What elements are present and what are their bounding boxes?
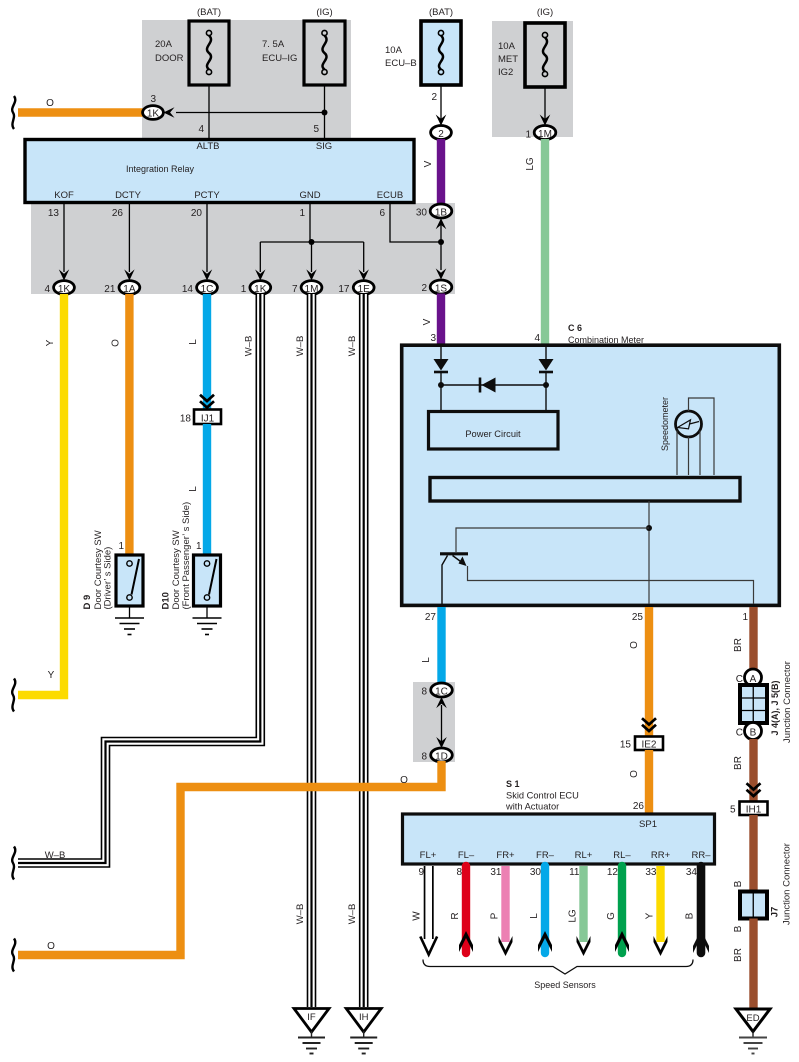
svg-text:Junction Connector: Junction Connector bbox=[782, 843, 793, 925]
transistor Q1 bbox=[440, 554, 468, 604]
gray panel top (fuse block) bbox=[142, 20, 351, 138]
fuse F2 7.5A ECU-IG bbox=[304, 21, 345, 85]
connector 1M ellipse bbox=[534, 126, 556, 140]
diode D2 (LG input) bbox=[539, 347, 554, 385]
svg-text:12: 12 bbox=[607, 867, 619, 878]
wire LG RL+ bbox=[577, 866, 591, 956]
svg-text:7. 5A: 7. 5A bbox=[262, 39, 285, 50]
wire orange left with break squiggle bbox=[18, 108, 143, 116]
skid control ECU S1 box bbox=[403, 814, 715, 864]
svg-text:BR: BR bbox=[733, 638, 744, 652]
svg-text:Combination Meter: Combination Meter bbox=[568, 335, 644, 345]
double arrow into IH1 bbox=[747, 783, 761, 789]
svg-text:18: 18 bbox=[180, 414, 192, 425]
svg-text:W–B: W–B bbox=[295, 904, 306, 925]
junction connector J4/J5 bbox=[740, 685, 767, 723]
wire F4 to connector 1M bbox=[544, 87, 546, 122]
svg-text:IH: IH bbox=[359, 1012, 369, 1023]
svg-text:Speedometer: Speedometer bbox=[660, 397, 670, 451]
arrow into 1M bbox=[306, 269, 316, 280]
svg-text:ECU–IG: ECU–IG bbox=[262, 53, 297, 64]
svg-text:26: 26 bbox=[112, 208, 124, 219]
svg-text:8: 8 bbox=[421, 687, 427, 698]
svg-text:(Front Passenger’ s Side): (Front Passenger’ s Side) bbox=[181, 502, 192, 610]
svg-text:3: 3 bbox=[150, 94, 156, 105]
internal wire 1B to 1S bbox=[440, 222, 442, 270]
svg-text:1A: 1A bbox=[123, 284, 136, 295]
junction IJ1 box bbox=[194, 410, 221, 425]
wire LG from 1M to meter pin 4 bbox=[541, 139, 549, 346]
svg-text:1S: 1S bbox=[435, 284, 448, 295]
svg-text:Y: Y bbox=[645, 912, 656, 919]
svg-text:W–B: W–B bbox=[244, 336, 255, 357]
connector 1 1K bbox=[250, 281, 271, 295]
svg-text:30: 30 bbox=[416, 208, 428, 219]
svg-text:RR+: RR+ bbox=[651, 850, 671, 861]
wire R FL- bbox=[459, 866, 473, 953]
svg-text:1: 1 bbox=[196, 541, 202, 552]
svg-text:L: L bbox=[188, 486, 199, 492]
junction dot left of D3 bbox=[438, 382, 444, 388]
svg-text:Power Circuit: Power Circuit bbox=[465, 429, 521, 439]
svg-text:1M: 1M bbox=[538, 129, 552, 140]
junction dot right of D3 bbox=[543, 382, 549, 388]
svg-text:13: 13 bbox=[48, 208, 60, 219]
svg-text:Speed Sensors: Speed Sensors bbox=[534, 980, 596, 990]
connector 4 1K bbox=[54, 281, 75, 295]
wire brown J7 to ED bbox=[749, 919, 757, 1009]
svg-text:LG: LG bbox=[525, 157, 536, 171]
svg-text:C 6: C 6 bbox=[568, 323, 582, 333]
wire W-B from 1M to ground IF bbox=[307, 294, 317, 1007]
connector 17 1E bbox=[353, 281, 374, 295]
svg-text:Junction Connector: Junction Connector bbox=[782, 661, 793, 743]
svg-text:B: B bbox=[750, 728, 757, 739]
svg-text:1K: 1K bbox=[254, 284, 267, 295]
svg-text:O: O bbox=[46, 98, 54, 109]
speed sensors bracket bbox=[423, 960, 693, 975]
internal wire 1C to 1D bbox=[441, 705, 443, 742]
pin 6 wire ECUB bbox=[390, 201, 441, 242]
gray panel below relay bbox=[31, 203, 455, 294]
svg-text:ALTB: ALTB bbox=[196, 141, 219, 152]
svg-text:R: R bbox=[450, 912, 461, 919]
door courtesy switch D10 bbox=[194, 555, 221, 606]
pin 1 wire GND with branch bbox=[309, 201, 311, 242]
svg-text:P: P bbox=[490, 912, 501, 919]
double arrow into IE2 bbox=[642, 718, 656, 724]
svg-text:Y: Y bbox=[48, 670, 55, 681]
connector 7 1M bbox=[301, 281, 322, 295]
junction IE2 box bbox=[635, 737, 663, 751]
wire F1 to relay ALTB pin 4 bbox=[208, 85, 210, 138]
svg-text:1B: 1B bbox=[435, 208, 448, 219]
svg-text:J 4(A), J 5(B): J 4(A), J 5(B) bbox=[770, 680, 780, 735]
svg-text:FL+: FL+ bbox=[420, 850, 437, 861]
power circuit box bbox=[429, 412, 559, 450]
connector 1K top ellipse bbox=[143, 106, 164, 120]
speedometer wiring bbox=[677, 398, 714, 475]
svg-text:3: 3 bbox=[430, 333, 436, 344]
wire branch to transistor base bbox=[456, 528, 649, 552]
arrow up into 1B bbox=[436, 218, 447, 229]
wire orange 1D to left edge bbox=[18, 761, 442, 955]
svg-text:1: 1 bbox=[525, 130, 531, 141]
svg-text:D 9: D 9 bbox=[82, 595, 93, 610]
svg-text:IE2: IE2 bbox=[641, 740, 656, 751]
svg-text:1: 1 bbox=[241, 284, 247, 295]
svg-text:9: 9 bbox=[418, 867, 424, 878]
svg-text:FL–: FL– bbox=[458, 850, 475, 861]
connector 8 1D bbox=[431, 748, 453, 762]
svg-text:6: 6 bbox=[379, 208, 385, 219]
fuse F1 20A DOOR bbox=[189, 21, 229, 85]
junction dot SIG bbox=[322, 110, 328, 116]
svg-text:B: B bbox=[685, 912, 696, 919]
wire G RL- bbox=[615, 866, 629, 953]
wire P FR+ bbox=[499, 866, 513, 956]
connector circle A bbox=[745, 669, 762, 686]
svg-text:V: V bbox=[422, 318, 433, 325]
wire L FR- bbox=[538, 866, 552, 953]
GND drop to 1K bbox=[259, 242, 261, 272]
junction IH1 box bbox=[740, 802, 768, 816]
ground IH triangle bbox=[346, 1009, 381, 1054]
wire SIG to 1K with left arrow bbox=[176, 112, 325, 114]
svg-text:L: L bbox=[188, 339, 199, 345]
svg-text:IJ1: IJ1 bbox=[201, 413, 215, 424]
wire blue L pin27 to 1C bbox=[437, 607, 445, 684]
wire F3 to connector 2 bbox=[440, 85, 442, 122]
svg-text:O: O bbox=[110, 339, 121, 347]
svg-text:10A: 10A bbox=[498, 41, 516, 52]
svg-text:15: 15 bbox=[620, 740, 632, 751]
arrow up into 1C bbox=[436, 697, 447, 708]
svg-text:GND: GND bbox=[299, 190, 320, 201]
gray panel MET IG2 bbox=[492, 21, 573, 137]
gray panel 1C/1D strip bbox=[413, 682, 455, 762]
wire orange IE2 to SP1 bbox=[645, 750, 653, 814]
arrow into 1K lower bbox=[255, 269, 265, 280]
arrow into 1C bbox=[202, 269, 212, 280]
svg-text:14: 14 bbox=[182, 284, 194, 295]
ground ED triangle bbox=[736, 1009, 770, 1054]
arrow into 1K row bbox=[59, 269, 69, 280]
svg-text:17: 17 bbox=[338, 284, 350, 295]
connector 14 1C bbox=[197, 281, 218, 295]
svg-text:B: B bbox=[733, 925, 744, 932]
speedometer gauge bbox=[676, 411, 702, 437]
svg-text:W–B: W–B bbox=[295, 336, 306, 357]
wire brown BR pin1 to junction A bbox=[749, 607, 757, 670]
svg-text:26: 26 bbox=[633, 801, 645, 812]
svg-text:BR: BR bbox=[733, 756, 744, 770]
svg-text:D10: D10 bbox=[161, 592, 172, 609]
arrow down into 1D bbox=[436, 737, 447, 748]
wire brown B to IH1 bbox=[749, 739, 757, 801]
svg-text:SP1: SP1 bbox=[639, 819, 657, 830]
svg-text:J7: J7 bbox=[770, 907, 781, 918]
svg-text:W–B: W–B bbox=[45, 850, 66, 861]
junction dot pin25 branch bbox=[646, 525, 652, 531]
pin 13 wire KOF bbox=[63, 201, 65, 272]
wire F2 to relay SIG pin 5 bbox=[324, 85, 326, 138]
svg-text:L: L bbox=[529, 913, 540, 919]
svg-text:BR: BR bbox=[733, 948, 744, 962]
svg-text:20: 20 bbox=[191, 208, 203, 219]
svg-text:1K: 1K bbox=[58, 284, 71, 295]
svg-text:8: 8 bbox=[456, 867, 462, 878]
svg-text:4: 4 bbox=[534, 333, 540, 344]
svg-text:W–B: W–B bbox=[347, 904, 358, 925]
svg-text:5: 5 bbox=[730, 805, 736, 816]
svg-text:Skid Control ECU: Skid Control ECU bbox=[506, 791, 579, 801]
svg-text:1: 1 bbox=[118, 541, 124, 552]
svg-text:1: 1 bbox=[742, 612, 748, 623]
wire W-B from 1E to ground IH bbox=[359, 294, 369, 1007]
ground under D9 bbox=[115, 606, 144, 635]
svg-text:O: O bbox=[47, 941, 55, 952]
svg-text:with Actuator: with Actuator bbox=[505, 802, 559, 812]
arrow down into 1S bbox=[436, 268, 447, 279]
fuse F3 10A ECU-B bbox=[421, 21, 461, 85]
svg-text:4: 4 bbox=[198, 124, 204, 135]
wire purple V from 1S to meter pin 3 bbox=[437, 294, 445, 347]
wire orange pin25 to IE2 bbox=[645, 607, 653, 736]
svg-text:IH1: IH1 bbox=[746, 805, 762, 816]
connector 21 1A bbox=[119, 281, 140, 295]
svg-text:(IG): (IG) bbox=[537, 7, 553, 18]
wire emitter to pin 1 bbox=[468, 566, 754, 604]
double arrow into IJ1 bbox=[200, 395, 214, 401]
junction connector J7 bbox=[740, 892, 767, 919]
svg-text:1K: 1K bbox=[147, 109, 160, 120]
svg-text:Y: Y bbox=[45, 339, 56, 346]
GND branch horizontal bbox=[260, 241, 363, 243]
svg-text:ED: ED bbox=[746, 1013, 759, 1024]
svg-text:PCTY: PCTY bbox=[194, 190, 220, 201]
svg-text:O: O bbox=[400, 775, 408, 786]
svg-text:L: L bbox=[421, 657, 432, 663]
arrow into 1E bbox=[359, 269, 369, 280]
svg-text:11: 11 bbox=[569, 867, 580, 878]
connector 30 1B bbox=[430, 204, 452, 218]
svg-text:RR–: RR– bbox=[691, 850, 711, 861]
wire B RR- bbox=[693, 866, 709, 953]
svg-text:SIG: SIG bbox=[316, 141, 332, 152]
connector 2 1S bbox=[430, 280, 452, 294]
arrow into 1A bbox=[124, 269, 134, 280]
wire blue L IJ1 to D10 bbox=[203, 424, 211, 554]
svg-text:DCTY: DCTY bbox=[115, 190, 142, 201]
wire blue L PCTY from 1C to IJ1 bbox=[203, 294, 211, 410]
wire bar to pin 25 bbox=[648, 501, 650, 604]
wire brown IH1 to J7 bbox=[749, 815, 757, 891]
door courtesy switch D9 bbox=[116, 555, 143, 606]
svg-text:2: 2 bbox=[421, 283, 427, 294]
svg-text:RL+: RL+ bbox=[575, 850, 593, 861]
svg-text:MET: MET bbox=[498, 54, 518, 65]
break squiggle orange top left bbox=[12, 96, 15, 129]
svg-text:25: 25 bbox=[632, 612, 644, 623]
svg-text:5: 5 bbox=[313, 124, 319, 135]
break squiggle orange bottom left bbox=[12, 939, 15, 972]
GND drop to 1M bbox=[311, 242, 313, 272]
wire purple V from 2 to 1B bbox=[437, 139, 445, 205]
svg-text:ECU–B: ECU–B bbox=[385, 58, 417, 69]
wire W-B from 1K lower to left edge bbox=[18, 294, 260, 863]
svg-text:21: 21 bbox=[104, 284, 116, 295]
integration relay box bbox=[25, 140, 414, 203]
svg-text:B: B bbox=[733, 880, 744, 887]
ground IF triangle bbox=[294, 1009, 329, 1054]
svg-text:IF: IF bbox=[307, 1012, 316, 1023]
svg-text:34: 34 bbox=[686, 867, 698, 878]
svg-text:1E: 1E bbox=[358, 284, 371, 295]
junction dot GND bbox=[309, 239, 315, 245]
arrow into connector 1M bbox=[540, 115, 551, 126]
svg-text:10A: 10A bbox=[385, 45, 403, 56]
svg-text:8: 8 bbox=[421, 752, 427, 763]
svg-text:KOF: KOF bbox=[54, 190, 74, 201]
svg-text:Integration Relay: Integration Relay bbox=[126, 164, 195, 174]
svg-text:S 1: S 1 bbox=[506, 779, 520, 789]
break squiggle W-B bbox=[12, 847, 15, 880]
svg-text:1C: 1C bbox=[201, 284, 214, 295]
cross link with diode D3 pointing left bbox=[441, 378, 546, 393]
svg-text:1D: 1D bbox=[435, 752, 448, 763]
GND drop to 1E bbox=[363, 242, 365, 272]
junction dot ECUB/1B bbox=[438, 239, 444, 245]
fuse F4 10A MET IG2 bbox=[525, 23, 565, 87]
wire orange DCTY from 1A to D9 bbox=[125, 294, 133, 554]
arrow pointing left into 1K bbox=[163, 107, 174, 118]
svg-text:7: 7 bbox=[292, 284, 298, 295]
svg-text:20A: 20A bbox=[155, 39, 173, 50]
svg-text:4: 4 bbox=[44, 284, 50, 295]
pin 26 wire DCTY bbox=[128, 201, 130, 272]
wire Y RR+ bbox=[654, 866, 668, 956]
connector 8 1C bbox=[431, 683, 453, 697]
svg-text:1: 1 bbox=[299, 208, 305, 219]
svg-text:(Driver’ s Side): (Driver’ s Side) bbox=[103, 547, 114, 610]
wire W FL+ bbox=[420, 866, 437, 955]
combination meter C6 box bbox=[402, 345, 780, 605]
svg-text:V: V bbox=[423, 160, 434, 167]
svg-text:27: 27 bbox=[425, 612, 437, 623]
svg-text:FR–: FR– bbox=[536, 850, 555, 861]
svg-text:W: W bbox=[412, 911, 423, 921]
svg-text:C: C bbox=[736, 728, 743, 739]
pin 20 wire PCTY bbox=[206, 201, 208, 272]
arrow into connector 2 bbox=[436, 115, 447, 126]
meter internal bar box bbox=[430, 478, 740, 502]
svg-text:O: O bbox=[629, 641, 640, 649]
ground under D10 bbox=[193, 606, 222, 635]
svg-text:30: 30 bbox=[530, 867, 542, 878]
svg-text:FR+: FR+ bbox=[496, 850, 515, 861]
svg-text:(BAT): (BAT) bbox=[429, 7, 453, 18]
svg-text:31: 31 bbox=[490, 867, 502, 878]
svg-text:33: 33 bbox=[645, 867, 657, 878]
svg-text:(IG): (IG) bbox=[316, 7, 332, 18]
svg-text:1M: 1M bbox=[305, 284, 319, 295]
svg-text:2: 2 bbox=[431, 92, 437, 103]
svg-text:(BAT): (BAT) bbox=[197, 7, 221, 18]
svg-text:G: G bbox=[606, 912, 617, 920]
svg-text:RL–: RL– bbox=[613, 850, 631, 861]
wire yellow KOF from 1K to left edge bbox=[18, 294, 64, 695]
svg-text:1C: 1C bbox=[435, 687, 448, 698]
connector 2 ellipse bbox=[431, 126, 452, 140]
break squiggle yellow bbox=[12, 679, 15, 712]
svg-text:DOOR: DOOR bbox=[155, 53, 184, 64]
svg-text:IG2: IG2 bbox=[498, 67, 513, 78]
svg-text:LG: LG bbox=[568, 909, 579, 923]
wires into power circuit bbox=[440, 385, 442, 411]
svg-text:O: O bbox=[629, 770, 640, 778]
connector circle B bbox=[745, 723, 762, 740]
svg-text:W–B: W–B bbox=[347, 336, 358, 357]
svg-text:2: 2 bbox=[438, 129, 444, 140]
diode D1 (V input) bbox=[434, 347, 449, 385]
svg-text:ECUB: ECUB bbox=[377, 190, 403, 201]
